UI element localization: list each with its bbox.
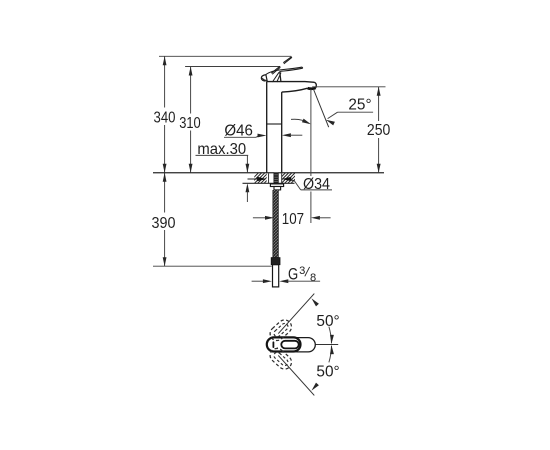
counter hatch right bbox=[275, 173, 302, 184]
dashed lobe upper (handle swung) bbox=[267, 317, 294, 343]
handle slot oval bbox=[281, 341, 298, 349]
lever wedge right edge bbox=[280, 72, 281, 82]
svg-text:Ø34: Ø34 bbox=[303, 176, 330, 193]
locknut plate bbox=[270, 184, 283, 187]
upper 50deg arc segment + arrow bbox=[329, 327, 332, 344]
counter top line bbox=[153, 172, 384, 174]
lower 50deg arc segment + arrow bbox=[329, 346, 332, 363]
counter hatch left bbox=[248, 173, 275, 184]
spout underside curve bbox=[282, 88, 308, 92]
body seam line bbox=[267, 123, 282, 125]
locknut body bbox=[274, 187, 281, 190]
raised lever sliver (340) bbox=[283, 57, 291, 63]
lever wedge inner line 2 bbox=[277, 73, 281, 82]
counter bottom line bbox=[243, 182, 295, 184]
dimension 340 vertical line bbox=[164, 56, 166, 107]
hose crimp sleeve bbox=[271, 258, 280, 265]
svg-text:8: 8 bbox=[310, 272, 316, 284]
small dot bbox=[277, 347, 279, 349]
lever front curl bbox=[261, 75, 266, 81]
spout tip vertical extension line bbox=[310, 89, 312, 176]
dimension Ø46 right arrow bbox=[282, 133, 291, 137]
svg-text:3: 3 bbox=[299, 265, 305, 277]
lever blade bottom edge bbox=[280, 68, 303, 71]
handle left index dash bbox=[272, 342, 274, 347]
extension line spout tip level bbox=[312, 86, 385, 88]
faucet body right edge bbox=[281, 92, 283, 173]
dia34 label leader bbox=[294, 181, 301, 190]
lever blade top edge bbox=[266, 67, 302, 75]
dia34 arrows at shank bbox=[248, 178, 259, 180]
raised lever sliver (310) bbox=[271, 66, 280, 73]
lever blade tip bbox=[301, 67, 303, 68]
25deg arc arrow toward vertical bbox=[291, 119, 309, 123]
lever wedge left edge bbox=[266, 75, 267, 82]
extension line top (340 level) bbox=[159, 55, 291, 57]
svg-text:25°: 25° bbox=[348, 97, 371, 114]
faucet body top / spout top bbox=[266, 81, 314, 84]
dimension 107 bbox=[253, 217, 266, 219]
shank side gaps (white) outlines bbox=[268, 173, 270, 183]
spout aerator (thick dark arc) bbox=[308, 87, 316, 91]
G3/8 threaded pipe bbox=[273, 265, 279, 287]
dimension 250 vertical bbox=[378, 87, 380, 121]
hose end reference line bbox=[153, 265, 272, 267]
handle lever arm (plan, thin) bbox=[290, 338, 315, 352]
plan view: handle center line bbox=[299, 344, 338, 346]
spout nose bbox=[315, 82, 317, 88]
dimension G3/8 arrows bbox=[252, 280, 264, 282]
svg-text:250: 250 bbox=[367, 122, 390, 139]
water stream direction line bbox=[313, 89, 328, 127]
lever wedge inner line 1 bbox=[272, 72, 279, 82]
braided flex hose bbox=[273, 190, 278, 258]
50deg lower swing line bbox=[278, 355, 314, 395]
dimension 390 vertical line bbox=[164, 173, 166, 213]
dimension 310 vertical line bbox=[190, 67, 192, 114]
extension line (310 level) bbox=[185, 66, 280, 68]
50deg upper swing line bbox=[278, 294, 314, 334]
svg-text:G: G bbox=[288, 265, 298, 283]
locknut small tab bbox=[280, 188, 282, 190]
svg-text:50°: 50° bbox=[316, 364, 339, 381]
threaded shank through counter bbox=[274, 173, 278, 184]
handle grip (plan, thick outline) bbox=[267, 337, 301, 351]
arrow at lower swing line bbox=[312, 383, 319, 391]
svg-text:107: 107 bbox=[282, 211, 304, 228]
lever front curl inner arc bbox=[262, 78, 267, 80]
faucet body left edge bbox=[266, 82, 268, 173]
arrow at upper swing line bbox=[312, 298, 319, 306]
svg-text:50°: 50° bbox=[316, 313, 339, 330]
svg-text:340: 340 bbox=[154, 110, 176, 127]
svg-text:310: 310 bbox=[179, 115, 201, 132]
svg-text:390: 390 bbox=[152, 215, 176, 232]
dashed lobe lower (handle swung) bbox=[267, 346, 294, 372]
